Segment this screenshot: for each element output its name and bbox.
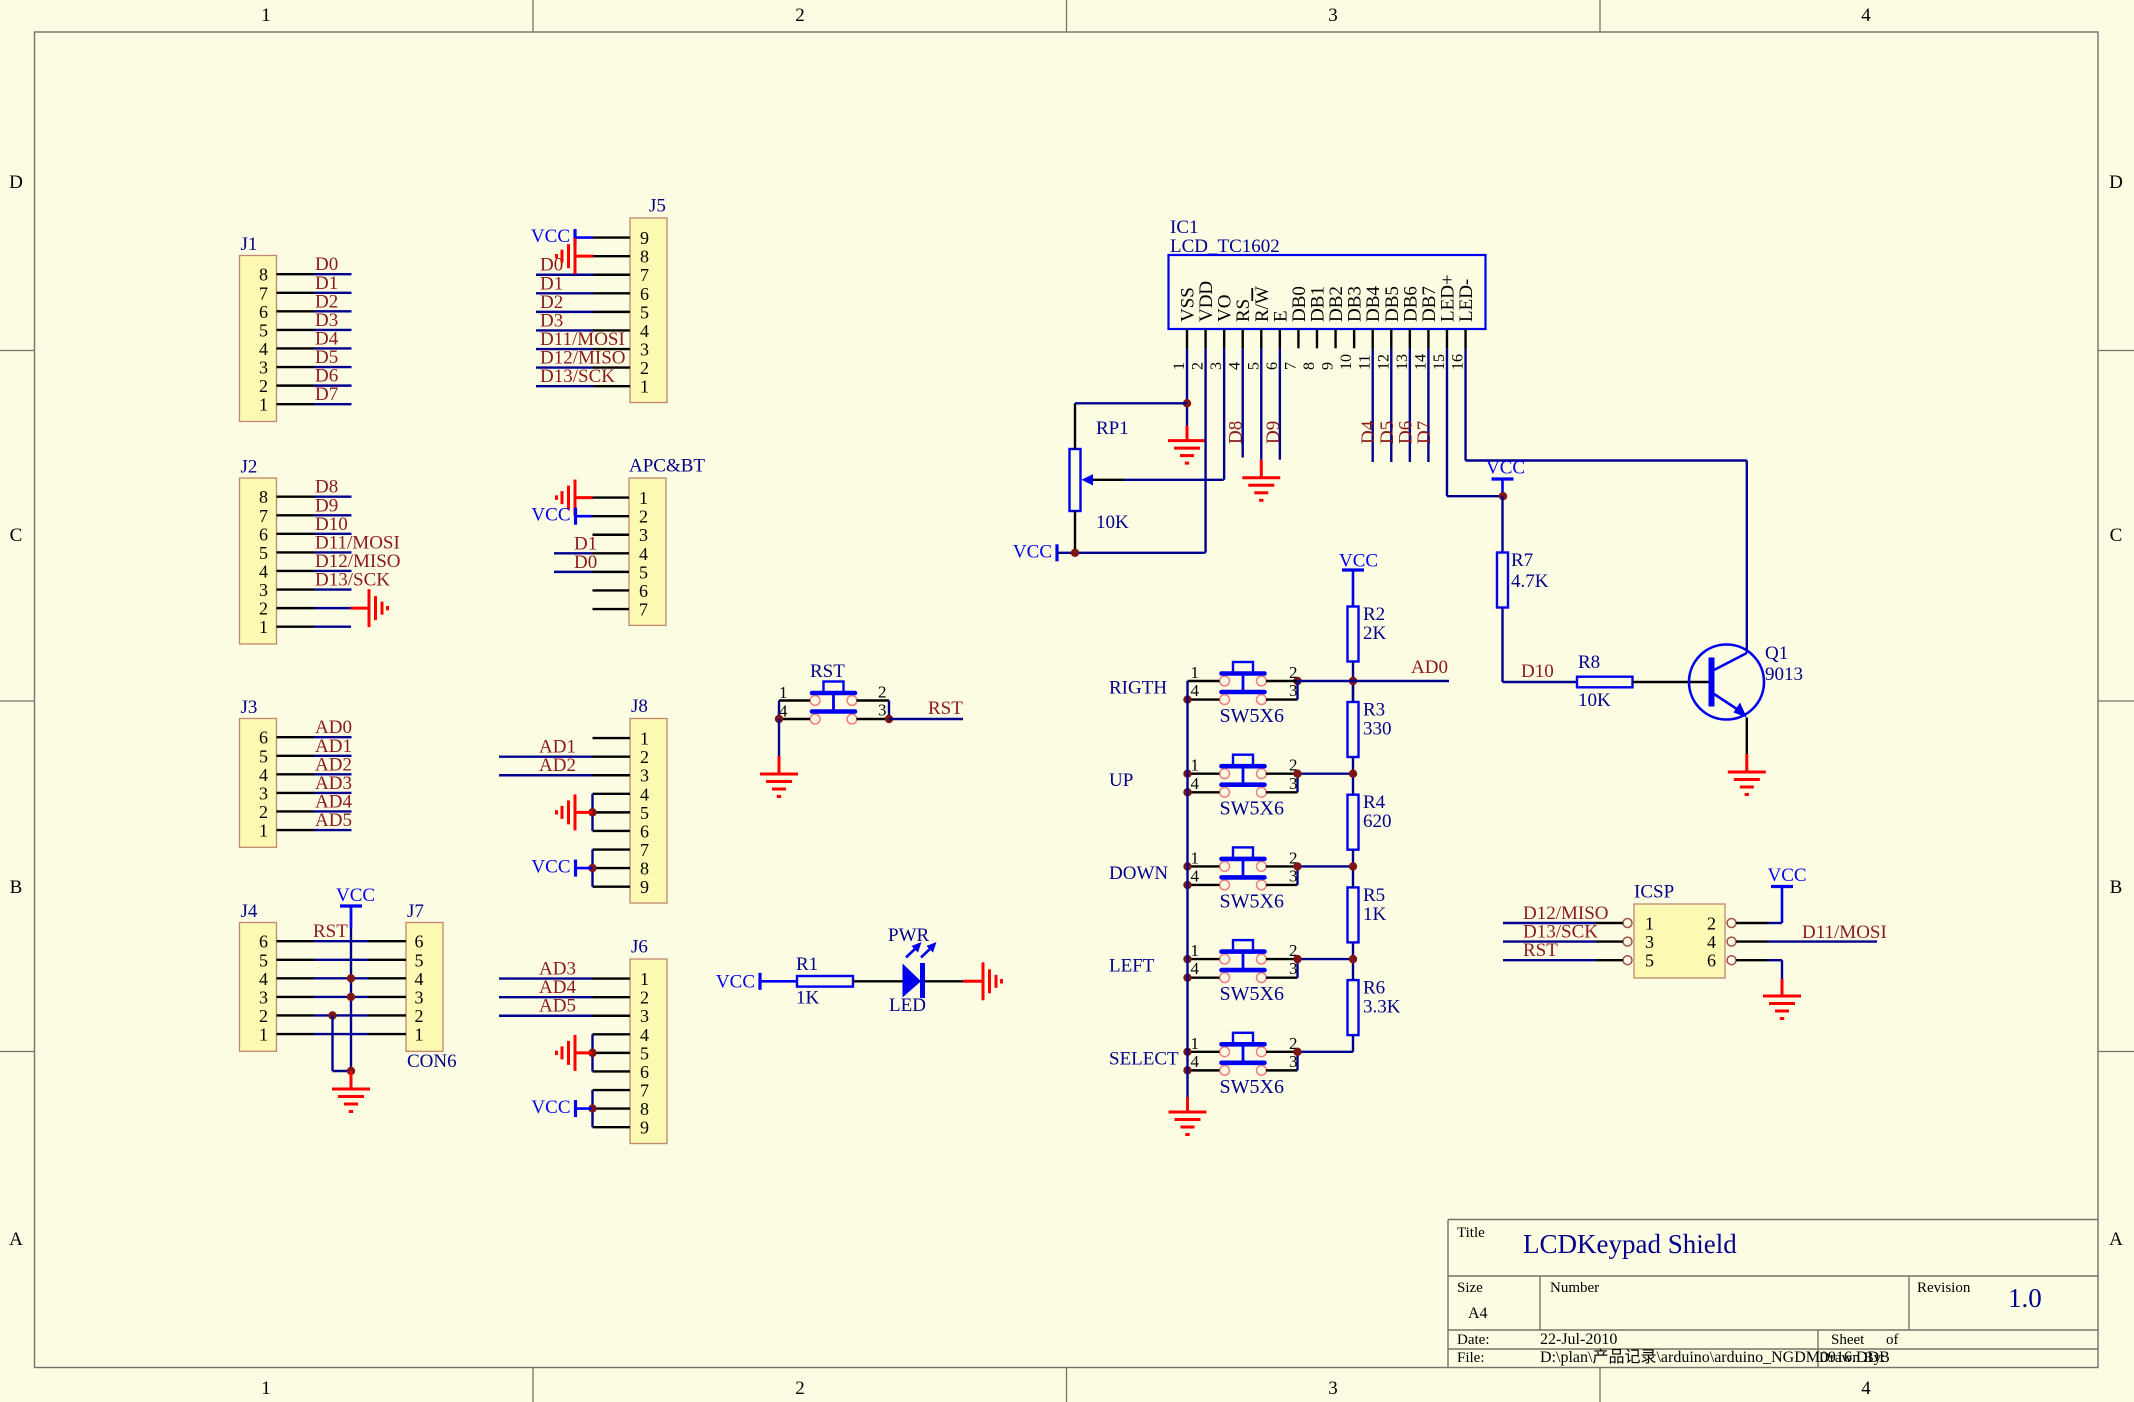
svg-text:4: 4 [1861,5,1871,26]
svg-text:A4: A4 [1468,1305,1488,1322]
svg-text:5: 5 [415,950,424,970]
svg-text:R4: R4 [1363,792,1386,813]
svg-text:4: 4 [640,784,649,804]
svg-text:7: 7 [640,840,649,860]
svg-text:AD2: AD2 [539,755,576,776]
svg-text:D10: D10 [1521,661,1554,682]
svg-text:5: 5 [1645,951,1654,971]
svg-text:AD5: AD5 [539,996,576,1017]
svg-text:3: 3 [1328,1378,1338,1399]
svg-text:13: 13 [1394,354,1411,370]
svg-text:4: 4 [1191,959,1200,978]
svg-text:R8: R8 [1578,652,1600,673]
svg-text:SW5X6: SW5X6 [1220,705,1284,727]
svg-text:1: 1 [640,969,649,989]
svg-text:B: B [10,877,23,898]
svg-text:3: 3 [1289,681,1298,700]
svg-text:Sheet: Sheet [1831,1332,1865,1348]
svg-text:D13/SCK: D13/SCK [315,570,390,591]
svg-text:2: 2 [795,5,805,26]
svg-text:D13/SCK: D13/SCK [540,366,615,387]
svg-text:1: 1 [1171,362,1188,370]
svg-text:4: 4 [1227,362,1244,370]
svg-text:330: 330 [1363,719,1392,740]
svg-text:8: 8 [1301,362,1318,370]
svg-text:IC1: IC1 [1170,217,1199,238]
svg-text:RST: RST [928,698,963,719]
svg-text:5: 5 [640,1043,649,1063]
svg-text:7: 7 [1282,362,1299,370]
svg-text:4: 4 [1861,1378,1871,1399]
svg-text:6: 6 [1707,951,1716,971]
svg-text:D7: D7 [1414,421,1435,444]
svg-text:4: 4 [1191,1052,1200,1071]
svg-text:R6: R6 [1363,978,1385,999]
svg-text:6: 6 [415,932,424,952]
svg-text:3: 3 [1645,932,1654,952]
svg-text:J1: J1 [241,234,258,255]
svg-text:11: 11 [1357,355,1374,370]
svg-text:6: 6 [639,581,648,601]
svg-text:R1: R1 [796,954,818,975]
svg-text:22-Jul-2010: 22-Jul-2010 [1540,1331,1617,1348]
svg-text:1: 1 [1191,1034,1200,1053]
svg-text:2: 2 [259,802,268,822]
svg-text:2: 2 [415,1006,424,1026]
svg-text:J5: J5 [649,196,666,217]
svg-text:2K: 2K [1363,623,1387,644]
svg-text:Revision: Revision [1917,1280,1971,1296]
svg-text:1: 1 [261,1378,271,1399]
svg-text:10K: 10K [1096,512,1129,533]
svg-text:LED: LED [889,995,926,1016]
svg-text:J7: J7 [407,901,424,922]
svg-text:8: 8 [640,859,649,879]
svg-text:1K: 1K [1363,904,1387,925]
svg-text:A: A [9,1229,23,1250]
svg-text:SW5X6: SW5X6 [1220,890,1284,912]
svg-text:12: 12 [1375,354,1392,370]
svg-text:9013: 9013 [1765,664,1803,685]
svg-text:LCD_TC1602: LCD_TC1602 [1170,236,1280,257]
svg-text:6: 6 [259,932,268,952]
svg-text:VCC: VCC [1768,865,1807,886]
svg-text:2: 2 [259,599,268,619]
svg-text:1: 1 [1191,663,1200,682]
svg-text:1K: 1K [796,988,820,1009]
svg-text:4: 4 [640,321,649,341]
svg-text:4: 4 [639,544,648,564]
svg-text:ICSP: ICSP [1634,882,1674,903]
svg-text:1: 1 [640,377,649,397]
svg-text:1: 1 [261,5,271,26]
svg-text:6: 6 [640,284,649,304]
svg-text:1.0: 1.0 [2008,1283,2042,1313]
svg-text:1: 1 [259,395,268,415]
svg-text:10: 10 [1338,354,1355,370]
svg-text:LEFT: LEFT [1109,956,1155,977]
svg-text:AD0: AD0 [1411,657,1448,678]
svg-text:5: 5 [259,320,268,340]
svg-text:3: 3 [259,783,268,803]
svg-text:4: 4 [259,969,268,989]
svg-text:VCC: VCC [531,226,570,247]
svg-text:RST: RST [1523,940,1558,961]
svg-text:LCDKeypad Shield: LCDKeypad Shield [1523,1229,1737,1259]
svg-text:15: 15 [1431,354,1448,370]
svg-text:D7: D7 [315,384,338,405]
svg-text:10K: 10K [1578,690,1611,711]
svg-text:D8: D8 [1226,421,1247,444]
svg-text:RIGTH: RIGTH [1109,678,1167,699]
svg-text:2: 2 [878,683,887,702]
svg-text:3: 3 [640,766,649,786]
svg-text:3: 3 [640,1006,649,1026]
svg-text:3: 3 [259,358,268,378]
svg-text:1: 1 [1191,756,1200,775]
svg-text:1: 1 [259,821,268,841]
svg-text:R3: R3 [1363,700,1385,721]
svg-text:7: 7 [640,265,649,285]
svg-text:3: 3 [639,525,648,545]
svg-text:7: 7 [639,600,648,620]
svg-text:8: 8 [259,265,268,285]
svg-text:4: 4 [259,561,268,581]
svg-text:SELECT: SELECT [1109,1048,1179,1069]
svg-text:4: 4 [1191,866,1200,885]
svg-text:6: 6 [1264,362,1281,370]
svg-text:RP1: RP1 [1096,418,1129,439]
svg-text:D11/MOSI: D11/MOSI [1802,922,1887,943]
svg-text:5: 5 [639,562,648,582]
svg-text:VCC: VCC [336,885,375,906]
svg-text:8: 8 [259,487,268,507]
svg-text:5: 5 [640,803,649,823]
svg-text:DOWN: DOWN [1109,863,1168,884]
svg-text:2: 2 [639,507,648,527]
svg-text:7: 7 [259,506,268,526]
svg-text:J4: J4 [241,901,258,922]
svg-text:VCC: VCC [531,1097,570,1118]
svg-text:J3: J3 [241,697,258,718]
svg-text:J2: J2 [241,457,258,478]
svg-text:Date:: Date: [1457,1332,1489,1348]
svg-text:9: 9 [640,877,649,897]
svg-text:3: 3 [1208,362,1225,370]
svg-text:9: 9 [1320,362,1337,370]
svg-text:1: 1 [640,729,649,749]
svg-text:5: 5 [640,302,649,322]
svg-text:16: 16 [1450,354,1467,370]
svg-text:4.7K: 4.7K [1511,571,1549,592]
svg-text:2: 2 [1707,914,1716,934]
svg-text:R5: R5 [1363,885,1385,906]
svg-text:14: 14 [1412,354,1429,370]
svg-text:LED-: LED- [1456,279,1477,322]
svg-text:C: C [10,525,23,546]
svg-text:3: 3 [640,340,649,360]
svg-text:7: 7 [640,1081,649,1101]
svg-text:PWR: PWR [888,925,930,946]
svg-text:File:: File: [1457,1350,1485,1366]
svg-text:6: 6 [259,302,268,322]
svg-text:Number: Number [1550,1280,1599,1296]
svg-text:7: 7 [259,283,268,303]
svg-text:2: 2 [259,376,268,396]
svg-text:1: 1 [1645,914,1654,934]
svg-text:5: 5 [259,746,268,766]
svg-text:3: 3 [1328,5,1338,26]
svg-text:4: 4 [640,1025,649,1045]
svg-text:3: 3 [259,987,268,1007]
svg-text:D: D [9,172,23,193]
svg-text:J8: J8 [631,696,648,717]
svg-text:RST: RST [810,661,845,682]
svg-text:4: 4 [1191,774,1200,793]
svg-text:VCC: VCC [531,857,570,878]
svg-text:AD5: AD5 [315,810,352,831]
svg-text:3: 3 [415,987,424,1007]
svg-text:3: 3 [259,580,268,600]
svg-text:VCC: VCC [531,505,570,526]
svg-text:A: A [2109,1229,2123,1250]
svg-text:Drawn By:: Drawn By: [1819,1350,1885,1366]
svg-text:6: 6 [640,821,649,841]
svg-text:2: 2 [1289,663,1298,682]
svg-text:3.3K: 3.3K [1363,997,1401,1018]
svg-text:1: 1 [639,488,648,508]
svg-text:8: 8 [640,247,649,267]
svg-text:1: 1 [259,617,268,637]
svg-text:1: 1 [415,1025,424,1045]
svg-text:VCC: VCC [1013,542,1052,563]
svg-text:2: 2 [259,1006,268,1026]
svg-text:4: 4 [415,969,424,989]
svg-text:R7: R7 [1511,550,1533,571]
svg-text:4: 4 [259,765,268,785]
svg-text:R2: R2 [1363,604,1385,625]
svg-text:4: 4 [1191,681,1200,700]
svg-text:1: 1 [1191,941,1200,960]
svg-text:VCC: VCC [716,972,755,993]
svg-text:2: 2 [640,747,649,767]
svg-text:VCC: VCC [1339,551,1378,572]
svg-text:CON6: CON6 [407,1051,457,1072]
svg-text:RST: RST [313,921,348,942]
svg-text:2: 2 [1190,362,1207,370]
svg-text:620: 620 [1363,811,1392,832]
svg-text:J6: J6 [631,937,648,958]
svg-text:2: 2 [640,988,649,1008]
svg-text:Q1: Q1 [1765,643,1788,664]
svg-text:C: C [2110,525,2123,546]
svg-text:1: 1 [259,1025,268,1045]
svg-text:B: B [2110,877,2123,898]
svg-text:9: 9 [640,228,649,248]
svg-text:6: 6 [640,1062,649,1082]
svg-text:6: 6 [259,728,268,748]
svg-text:9: 9 [640,1118,649,1138]
svg-text:5: 5 [259,950,268,970]
svg-text:Title: Title [1457,1225,1485,1241]
svg-text:4: 4 [259,339,268,359]
svg-text:2: 2 [795,1378,805,1399]
svg-text:D9: D9 [1263,421,1284,444]
svg-text:D0: D0 [574,552,597,573]
svg-text:1: 1 [1191,848,1200,867]
svg-text:VCC: VCC [1486,458,1525,479]
svg-text:5: 5 [1245,362,1262,370]
svg-text:of: of [1886,1332,1899,1348]
svg-text:2: 2 [640,358,649,378]
svg-text:SW5X6: SW5X6 [1220,1076,1284,1098]
svg-text:UP: UP [1109,770,1133,791]
svg-text:6: 6 [259,524,268,544]
svg-text:8: 8 [640,1099,649,1119]
svg-text:SW5X6: SW5X6 [1220,983,1284,1005]
svg-text:4: 4 [1707,932,1716,952]
svg-text:1: 1 [779,683,788,702]
svg-text:5: 5 [259,543,268,563]
svg-text:3: 3 [878,701,887,720]
svg-text:D: D [2109,172,2123,193]
svg-text:APC&BT: APC&BT [629,456,705,477]
svg-text:Size: Size [1457,1280,1483,1296]
svg-text:SW5X6: SW5X6 [1220,798,1284,820]
